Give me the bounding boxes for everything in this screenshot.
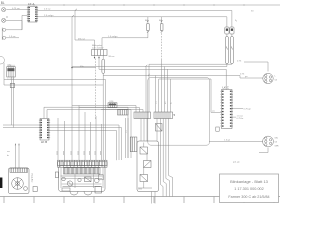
- svg-text:2.5 sw/gn: 2.5 sw/gn: [44, 15, 54, 17]
- net L line from capsule to X1: [103, 76, 263, 79]
- connector strip A: [134, 112, 151, 119]
- wire flasher pin2 to net E: [98, 59, 100, 70]
- S2 inner details: [62, 177, 66, 181]
- wire riser 15 long drop: [71, 17, 73, 160]
- connector strip B: [154, 112, 173, 119]
- lamp H1: [2, 8, 6, 12]
- instrument E3 top pins: [10, 168, 28, 172]
- wire F1 bottom to net 15 run: [102, 34, 148, 50]
- wire H2 right: [6, 19, 22, 21]
- control unit A1 inner relay 3: [140, 175, 148, 182]
- frame column ticks bottom: [4, 197, 274, 204]
- relay K26: [108, 103, 117, 108]
- svg-text:0.75 gn: 0.75 gn: [244, 108, 252, 110]
- S2 left tab: [55, 172, 58, 178]
- wire 49a output left: [72, 67, 96, 69]
- frame column ticks top: [34, 4, 244, 6]
- inline connector near LK C: [216, 127, 219, 131]
- strip B top feeds: [155, 76, 157, 113]
- switch unit S2 body: [59, 166, 106, 192]
- wire riser to LK A pin: [22, 15, 27, 29]
- wires E boxes to capsules: [226, 34, 228, 37]
- frame left black mark: [0, 178, 2, 189]
- svg-text:BL: BL: [1, 1, 5, 5]
- junction tick bus15 x72: [72, 15, 74, 17]
- control unit A1 inner relay 1: [140, 147, 148, 154]
- S2 bottom tabs: [70, 191, 78, 195]
- verticals bundle x125-132: [125, 118, 127, 158]
- connector LK B pins right: [47, 119, 49, 138]
- wire S3 lower right: [6, 37, 19, 39]
- sheet bottom frame line: [0, 196, 280, 198]
- wire pair into LK B: [3, 124, 40, 126]
- wire E2 bottom to band: [231, 63, 233, 66]
- socket X2 bottom wire: [259, 148, 268, 153]
- wire capsule drop: [102, 73, 104, 160]
- wire net y85 across: [4, 84, 103, 86]
- trailer socket X2: [263, 136, 274, 147]
- indicator unit E1 top box: [225, 27, 229, 34]
- wire riser 30 to flasher: [75, 11, 95, 50]
- wire net y79.5 across: [4, 80, 106, 161]
- svg-text:Farmer 300 C ab 21/5/84: Farmer 300 C ab 21/5/84: [228, 195, 269, 199]
- indicator unit E2 top box: [230, 27, 234, 34]
- svg-text:0.75 br: 0.75 br: [237, 117, 244, 120]
- svg-text:49a sw: 49a sw: [78, 38, 85, 40]
- svg-text:LK B: LK B: [41, 140, 47, 144]
- net C line y66.5: [72, 66, 227, 68]
- instrument E3 body: [9, 168, 30, 194]
- small box at E3 right: [33, 187, 37, 192]
- net E line y69.3 to LK C top: [99, 69, 226, 89]
- wire H1 to LK A: [6, 9, 27, 11]
- svg-text:br: br: [7, 154, 9, 157]
- switch unit S2 top pin strip: [58, 162, 108, 167]
- svg-text:1 17.301 000.002: 1 17.301 000.002: [234, 187, 264, 191]
- capsule component below flasher: [102, 59, 105, 73]
- svg-text:58R: 58R: [275, 146, 279, 148]
- svg-text:pol. gn: pol. gn: [233, 162, 240, 164]
- relay K2 pins down: [11, 77, 13, 125]
- bus 15 wire: [37, 17, 227, 27]
- junction tick bus30 x69: [75, 9, 77, 11]
- sheet top frame line: [0, 4, 280, 6]
- connector strip C: [118, 110, 129, 116]
- svg-text:Vorgl.Anz: Vorgl.Anz: [31, 173, 34, 182]
- lamp half circle at left margin: [0, 56, 4, 64]
- svg-text:90 ms: 90 ms: [109, 56, 116, 58]
- component S5 narrow box: [130, 137, 137, 152]
- fuse F1: [147, 24, 150, 31]
- flasher relay K1 body: [92, 50, 108, 56]
- wire E1 bottom to band: [226, 64, 228, 67]
- svg-text:sw: sw: [212, 111, 215, 113]
- relay box K3 under strip B: [156, 124, 163, 132]
- connector LK B pins left: [40, 119, 42, 138]
- wire pair below unit A1: [151, 192, 153, 204]
- cluster top feed lines: [72, 106, 136, 113]
- relay K2 body: [7, 67, 15, 77]
- wire band y79 to LK C left: [159, 79, 211, 112]
- lamp H2: [2, 18, 6, 22]
- flasher pins down: [94, 56, 96, 59]
- equipment frame box: [148, 78, 210, 146]
- bend bundle right of unit A1: [161, 119, 164, 197]
- feeds for strip A right pins: [145, 67, 147, 113]
- wire LK B out right upper: [49, 125, 119, 160]
- svg-text:2.5 sw: 2.5 sw: [44, 9, 51, 11]
- control unit A1 inner relay 2: [144, 161, 152, 168]
- svg-text:0.75 sw: 0.75 sw: [12, 8, 20, 10]
- wire LK C right out 1: [232, 107, 243, 109]
- switch S3 upper contact: [3, 28, 6, 31]
- wire S3 upper right: [6, 29, 22, 31]
- svg-text:1.5 sw: 1.5 sw: [237, 116, 244, 118]
- connector LK B body: [40, 119, 49, 141]
- unit A1 wire stubs: [140, 119, 142, 142]
- wire LK C right out 2: [232, 116, 236, 118]
- title block frame: [220, 174, 279, 203]
- connector LK A pins right column: [35, 7, 37, 21]
- riser x16.5 to dial: [14, 144, 16, 169]
- connector LK C pins right: [230, 91, 232, 127]
- switch S3 lower contact: [3, 36, 6, 39]
- connector LK A body: [28, 6, 37, 22]
- wire left margin riser: [3, 63, 5, 86]
- S2 inner contact bar: [64, 168, 101, 174]
- instrument E3 small circle: [24, 187, 28, 191]
- bus 30 wire: [37, 11, 232, 28]
- svg-text:sw: sw: [7, 151, 10, 153]
- control unit A1 body: [137, 141, 159, 192]
- trailer socket X1: [263, 73, 273, 83]
- wire top into socket X1: [244, 62, 268, 72]
- connector LK C pins left: [222, 91, 224, 127]
- fuse F2: [160, 24, 163, 31]
- wire to socket X2: [209, 141, 263, 143]
- svg-text:1.5 sw: 1.5 sw: [9, 36, 16, 38]
- junction tick on band: [146, 65, 148, 67]
- svg-text:Blinkgeber: Blinkgeber: [92, 44, 103, 47]
- pin arrowheads: [94, 57, 95, 59]
- bundle verticals into cluster: [78, 106, 80, 161]
- svg-text:1.5 gn: 1.5 gn: [224, 140, 231, 142]
- junction tick net L: [148, 74, 150, 76]
- indicator E1 body capsule: [225, 37, 228, 64]
- inline connector on K2 drop: [10, 83, 14, 87]
- svg-text:1.5 sw/gn: 1.5 sw/gn: [108, 36, 118, 38]
- wire labels above S2 strip: [57, 151, 101, 155]
- wire into LK C left: [211, 111, 222, 113]
- wire LK B out right third: [49, 131, 117, 161]
- wire drops into switch S2: [58, 112, 102, 160]
- switch unit S2 top pin strip: [58, 160, 108, 165]
- net D line y64.2: [149, 63, 232, 65]
- connector LK C body: [222, 90, 233, 129]
- svg-text:Blinkanlage - Blatt 13: Blinkanlage - Blatt 13: [230, 179, 269, 184]
- tick at right of E2: [235, 20, 236, 22]
- wire LK B out right lower: [49, 128, 122, 161]
- connector LK A pins left column: [28, 7, 30, 21]
- wire LK B top right pair: [44, 107, 128, 158]
- svg-text:LK A: LK A: [28, 2, 34, 6]
- indicator E2 body capsule: [230, 37, 233, 64]
- riser x19 to dial: [18, 144, 20, 169]
- svg-text:LK C: LK C: [223, 86, 229, 90]
- wire F2 bottom dashed drop: [161, 30, 163, 60]
- instrument E3 dial: [12, 178, 24, 190]
